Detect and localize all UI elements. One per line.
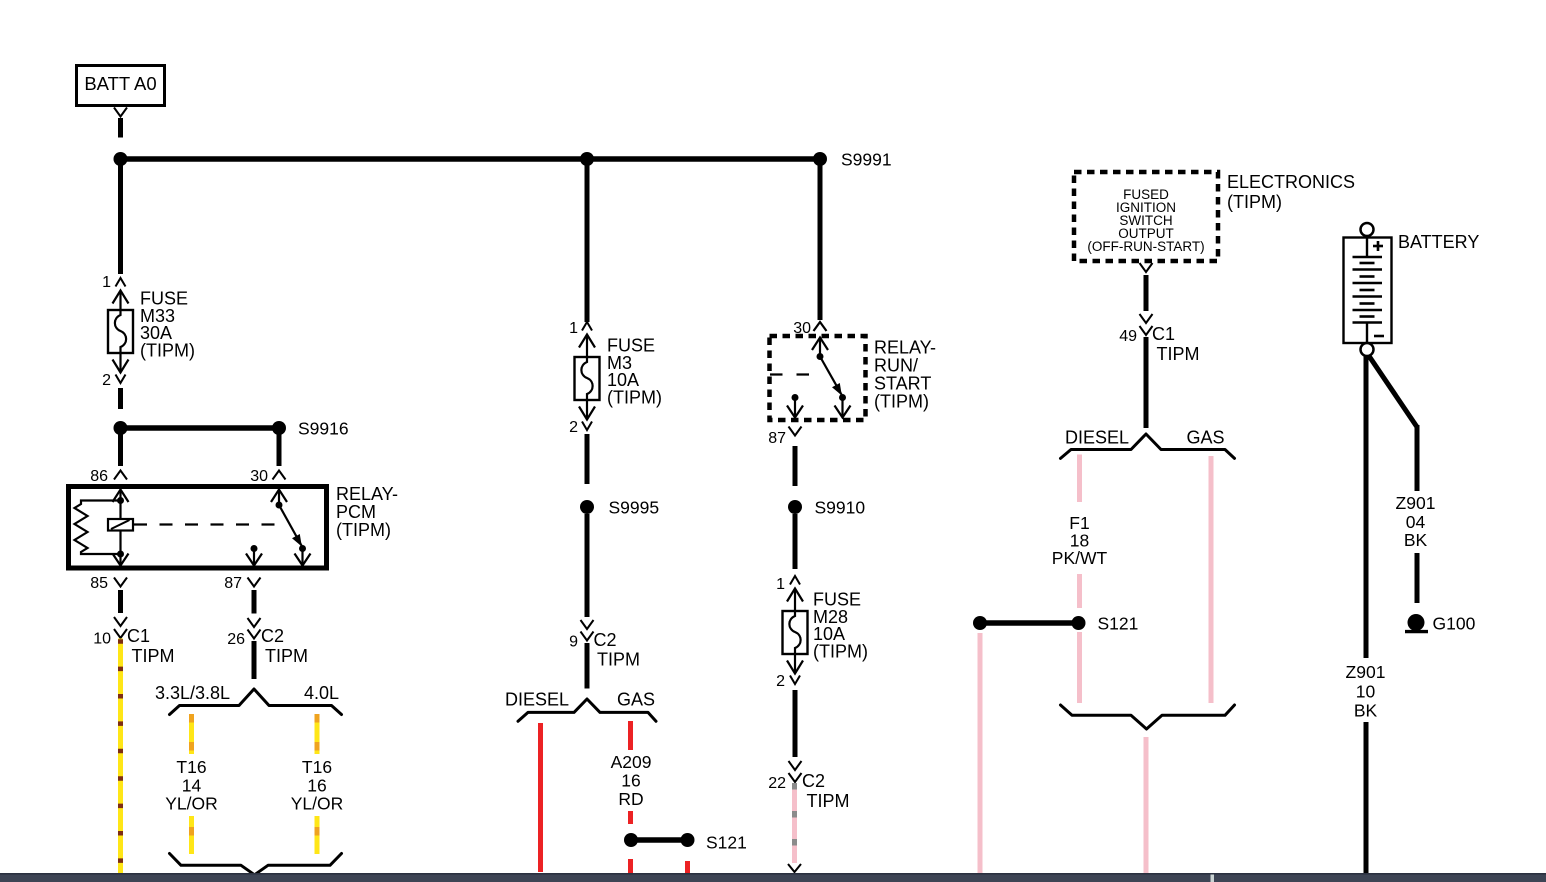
- svg-text:(TIPM): (TIPM): [140, 340, 195, 360]
- svg-text:26: 26: [227, 631, 245, 648]
- relay-PCM actuation dashed link: [134, 523, 283, 525]
- svg-text:PCM: PCM: [336, 502, 376, 522]
- connector BATT A0: [77, 66, 165, 106]
- wire Z901 04 BK diagonal from battery: [1369, 356, 1417, 491]
- wire A209 dashed red above splice: [628, 811, 633, 824]
- wire relay pin 87 to connector C2: [252, 590, 257, 614]
- fuel split brace DIESEL vs GAS right: [1061, 428, 1235, 459]
- svg-text:C2: C2: [802, 771, 825, 791]
- svg-text:C1: C1: [1152, 324, 1175, 344]
- junction at S9991 bus left: [114, 152, 128, 166]
- svg-text:ELECTRONICS: ELECTRONICS: [1227, 172, 1355, 192]
- svg-text:T16: T16: [176, 757, 206, 777]
- relay run/start internal arrow pin 87: [787, 394, 803, 418]
- relay-PCM coil: [108, 501, 133, 555]
- wire S9991 to relay run/start pin 30: [818, 159, 823, 320]
- connector C2 TIPM pin 9: [569, 620, 640, 670]
- relay RELAY-PCM (TIPM): [69, 484, 399, 568]
- relay-PCM internal arrow pin 30: [271, 490, 287, 509]
- relay-PCM internal arrow pin 85: [113, 551, 129, 566]
- fuse M3 pin 2: [569, 400, 595, 436]
- wire Z901 10 BK lower segment: [1364, 722, 1369, 873]
- svg-text:S9991: S9991: [841, 150, 892, 170]
- wire T16 16 YL/OR upper segment: [315, 714, 320, 754]
- fuse M28 pin 2: [776, 654, 803, 690]
- wire bus to fuse M3 pin 1: [585, 159, 590, 322]
- fuse M3 pin 1: [569, 320, 595, 357]
- connector C2 TIPM pin 26: [227, 618, 308, 666]
- svg-text:RELAY-: RELAY-: [874, 338, 936, 358]
- relay-PCM switch blade: [279, 505, 306, 552]
- svg-text:YL/OR: YL/OR: [291, 794, 344, 814]
- svg-text:14: 14: [182, 776, 202, 796]
- connector arrow at bottom of pink wire: [788, 864, 801, 872]
- wire C2 to fuel split: [585, 643, 590, 689]
- svg-text:04: 04: [1406, 512, 1426, 532]
- svg-text:S9910: S9910: [815, 498, 866, 518]
- svg-text:30: 30: [250, 468, 268, 485]
- svg-text:3.3L/3.8L: 3.3L/3.8L: [155, 683, 230, 703]
- svg-text:G100: G100: [1433, 614, 1476, 634]
- svg-text:16: 16: [621, 771, 640, 791]
- fuse M33 pin 2: [102, 353, 128, 389]
- wire T16 14 YL/OR lower segment: [189, 816, 194, 854]
- connector below fused ignition output: [1140, 263, 1153, 272]
- svg-text:DIESEL: DIESEL: [1065, 428, 1129, 448]
- relay-PCM switch contact arrow: [295, 549, 311, 566]
- fuse M28 pin 1: [776, 576, 803, 611]
- label A209 16 RD: [611, 752, 652, 809]
- in-line connector below BATT A0: [114, 108, 127, 117]
- fuse M3 10A (TIPM): [575, 336, 662, 408]
- connector C2 TIPM pin 22: [768, 761, 849, 811]
- svg-text:RELAY-: RELAY-: [336, 484, 398, 504]
- connector C1 TIPM pin 10: [93, 617, 174, 666]
- wire fuse M3 to splice S9995: [585, 434, 590, 484]
- wire relay pin 85 to connector C1: [118, 590, 123, 613]
- relay-PCM pin 30: [250, 468, 285, 485]
- fuel split brace DIESEL vs GAS: [505, 690, 656, 722]
- ground G100: [1405, 614, 1476, 634]
- wire relay 87 to splice S9910: [793, 446, 798, 486]
- svg-text:TIPM: TIPM: [597, 650, 640, 670]
- wire T16 16 YL/OR lower segment: [315, 816, 320, 854]
- wire pink below S121 left: [978, 633, 983, 873]
- wire to fuse M33 pin 1: [118, 159, 123, 274]
- splice S121: [973, 614, 1138, 634]
- svg-text:85: 85: [90, 575, 108, 592]
- svg-text:C2: C2: [261, 626, 284, 646]
- label T16 16 YL/OR right: [291, 757, 344, 814]
- wire 22 C2 pink with gray tracer: [792, 783, 797, 863]
- fuse M28 10A (TIPM): [783, 590, 868, 662]
- svg-text:(OFF-RUN-START): (OFF-RUN-START): [1087, 239, 1204, 254]
- relay RELAY-RUN/START (TIPM): [770, 336, 937, 420]
- svg-text:RD: RD: [618, 789, 643, 809]
- svg-text:2: 2: [102, 372, 111, 389]
- svg-text:PK/WT: PK/WT: [1052, 548, 1108, 568]
- engine split brace 3.3L/3.8L vs 4.0L: [155, 683, 342, 715]
- svg-text:BK: BK: [1404, 530, 1428, 550]
- wire F1 18 PK/WT upper segment: [1077, 455, 1082, 503]
- wire Z901 04 to ground G100: [1415, 553, 1420, 603]
- wire C2 to engine split: [252, 641, 257, 679]
- svg-text:TIPM: TIPM: [1157, 344, 1200, 364]
- svg-text:9: 9: [569, 634, 578, 651]
- svg-text:DIESEL: DIESEL: [505, 690, 569, 710]
- relay-PCM coil resistor: [75, 501, 121, 555]
- relay-PCM pin 87: [224, 575, 260, 592]
- svg-text:A209: A209: [611, 752, 652, 772]
- label Z901 10 BK: [1346, 662, 1386, 721]
- splice S9991: [813, 150, 892, 170]
- wire to connector C1: [1144, 275, 1149, 311]
- relay run/start contact arrow right: [835, 398, 851, 418]
- wire T16 14 YL/OR upper segment: [189, 714, 194, 754]
- relay-PCM internal arrow pin 87: [246, 545, 262, 566]
- relay run/start internal arrow pin 30: [812, 338, 828, 361]
- svg-text:(TIPM): (TIPM): [607, 387, 662, 407]
- relay-PCM pin 86: [90, 468, 127, 485]
- svg-text:Z901: Z901: [1396, 493, 1436, 513]
- svg-text:START: START: [874, 374, 931, 394]
- svg-text:S9995: S9995: [609, 498, 660, 518]
- svg-text:(TIPM): (TIPM): [813, 641, 868, 661]
- svg-text:GAS: GAS: [1187, 428, 1225, 448]
- svg-text:TIPM: TIPM: [132, 646, 175, 666]
- relay-PCM pin 85: [90, 575, 127, 592]
- connector C1 TIPM pin 49: [1119, 314, 1199, 364]
- splice S9916: [114, 419, 349, 439]
- svg-text:2: 2: [776, 673, 785, 690]
- svg-text:S9916: S9916: [298, 419, 349, 439]
- wire S9910 to fuse M28 pin 1: [793, 514, 798, 569]
- splice S121 gas: [624, 833, 747, 853]
- svg-text:4.0L: 4.0L: [304, 683, 339, 703]
- svg-text:TIPM: TIPM: [265, 646, 308, 666]
- battery B1: [1344, 223, 1392, 356]
- wire C1 to fuel split: [1144, 337, 1149, 428]
- splice S9995: [580, 498, 659, 518]
- wire S9995 to connector C2: [585, 514, 590, 617]
- svg-text:1: 1: [569, 320, 578, 337]
- svg-text:TIPM: TIPM: [807, 791, 850, 811]
- label Z901 04 BK: [1396, 493, 1436, 550]
- svg-text:RUN/: RUN/: [874, 356, 918, 376]
- svg-text:(TIPM): (TIPM): [874, 392, 929, 412]
- label ELECTRONICS (TIPM): [1227, 172, 1355, 212]
- wire dashed red below S121 right: [685, 861, 690, 873]
- wire GAS A209 16 RD upper segment: [628, 721, 633, 750]
- wire BATT A0 to splice S9991 bus: [118, 118, 123, 138]
- svg-text:BK: BK: [1354, 701, 1378, 721]
- svg-text:BATTERY: BATTERY: [1398, 232, 1479, 252]
- svg-text:BATT A0: BATT A0: [84, 73, 156, 94]
- wire dashed red below S121 left: [628, 859, 633, 873]
- svg-text:T16: T16: [302, 757, 332, 777]
- wire Z901 10 BK upper segment: [1364, 356, 1369, 658]
- svg-text:86: 86: [90, 468, 108, 485]
- svg-text:87: 87: [224, 575, 242, 592]
- svg-text:C1: C1: [127, 626, 150, 646]
- bottom toolbar band: [0, 873, 1546, 882]
- svg-text:C2: C2: [594, 630, 617, 650]
- wire DIESEL red: [538, 723, 543, 872]
- wire fuse M33 to splice S9916: [118, 388, 123, 409]
- wire 10 C1 yellow with dark red tracer: [118, 639, 123, 874]
- relay-PCM internal arrow pin 86: [113, 490, 129, 505]
- relay run/start pin 30: [793, 320, 826, 337]
- svg-text:49: 49: [1119, 328, 1137, 345]
- svg-text:16: 16: [307, 776, 326, 796]
- fuel merge brace bottom right: [1061, 705, 1235, 729]
- label BATTERY: [1398, 232, 1479, 252]
- svg-text:1: 1: [102, 274, 111, 291]
- svg-text:GAS: GAS: [617, 690, 655, 710]
- svg-text:Z901: Z901: [1346, 662, 1386, 682]
- svg-text:(TIPM): (TIPM): [336, 520, 391, 540]
- fuse M33 30A (TIPM): [108, 289, 195, 361]
- relay run/start pin 87: [768, 427, 801, 448]
- wire S9916 to relay-PCM pin 30: [277, 433, 282, 466]
- wire bus S9991: [121, 156, 821, 162]
- node FUSED IGNITION SWITCH OUTPUT (OFF-RUN-START): [1074, 172, 1218, 261]
- svg-text:10: 10: [1356, 682, 1376, 702]
- wire pink below S121 right: [1077, 632, 1082, 703]
- svg-text:1: 1: [776, 576, 785, 593]
- splice S9910: [788, 498, 865, 518]
- svg-text:10: 10: [93, 631, 111, 648]
- label T16 14 YL/OR left: [165, 757, 218, 814]
- svg-text:YL/OR: YL/OR: [165, 794, 218, 814]
- svg-text:S121: S121: [706, 833, 747, 853]
- svg-text:2: 2: [569, 419, 578, 436]
- svg-text:S121: S121: [1098, 614, 1139, 634]
- wire F1 pink middle segment: [1077, 574, 1082, 608]
- relay run/start switch blade: [820, 357, 846, 402]
- fuse M33 pin 1: [102, 274, 128, 310]
- engine merge brace bottom left: [170, 854, 342, 875]
- wire S9916 to relay-PCM pin 86: [118, 433, 123, 466]
- label F1 18 PK/WT: [1052, 513, 1108, 568]
- relay run/start actuation dashed link: [770, 373, 816, 375]
- wire fuse M28 to connector C2: [793, 690, 798, 757]
- junction S9991 bus middle: [580, 152, 594, 166]
- wire GAS pink right: [1209, 456, 1214, 703]
- svg-text:87: 87: [768, 430, 786, 447]
- svg-text:(TIPM): (TIPM): [1227, 192, 1282, 212]
- wire pink below merge: [1144, 737, 1149, 873]
- svg-text:22: 22: [768, 775, 786, 792]
